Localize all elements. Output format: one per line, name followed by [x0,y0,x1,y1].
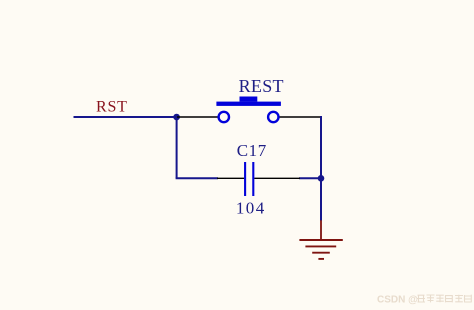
watermark chinese glyphs [417,295,471,303]
svg-text:104: 104 [236,199,266,218]
pin C17.1 (black) [217,177,244,179]
wire horizontal to capacitor left [176,177,218,179]
ground bar 4 [318,258,324,260]
ground bar 1 [299,239,342,241]
wire right vertical (button to node B) [320,116,322,178]
junction node A [173,114,180,121]
push button S1 plunger [240,97,258,102]
wire node B down [320,178,322,220]
wire RST horizontal [74,116,177,118]
svg-text:RST: RST [96,99,128,116]
pin S1.2 (black) [279,116,321,118]
svg-text:REST: REST [239,76,284,96]
push button S1 contact right [268,112,278,122]
ground bar 2 [305,245,336,247]
wire vertical left (node A down to capacitor net) [176,117,178,178]
capacitor C17 plate right [252,162,254,196]
svg-text:C17: C17 [237,141,267,160]
pin S1.1 (black) [177,116,219,118]
svg-text:CSDN @: CSDN @ [377,294,418,305]
wire capacitor to node B [299,177,321,179]
push button S1 contact left [219,112,229,122]
push button S1 actuator bar [216,102,281,106]
pin C17.2 (black) [254,177,300,179]
ground bar 3 [312,252,330,254]
junction node B [318,175,325,182]
ground stub [320,220,322,240]
capacitor C17 plate left [244,162,246,196]
